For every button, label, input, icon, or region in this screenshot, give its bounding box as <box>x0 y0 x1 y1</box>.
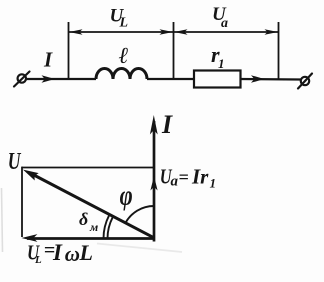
svg-text:φ: φ <box>120 179 133 211</box>
wire left <box>26 78 96 80</box>
scan smudge below UL label <box>97 244 182 253</box>
terminal right <box>301 77 309 85</box>
scan smudge left edge <box>2 188 3 252</box>
svg-text:L: L <box>119 16 129 31</box>
extension line left <box>68 22 70 79</box>
svg-text:L: L <box>79 240 93 265</box>
phasor U diagonal <box>30 173 154 238</box>
dim arrow UL left <box>69 29 83 34</box>
svg-text:L: L <box>34 254 42 266</box>
svg-text:Ir: Ir <box>191 164 209 188</box>
resistor r1 <box>194 71 241 88</box>
wire middle <box>147 78 194 80</box>
arrowhead Ua mid <box>150 176 157 191</box>
arc phi <box>125 206 154 223</box>
terminal left <box>18 74 26 82</box>
svg-text:a: a <box>171 174 179 190</box>
svg-text:I: I <box>52 240 63 265</box>
svg-text:U: U <box>8 147 22 174</box>
svg-text:1: 1 <box>210 176 217 191</box>
svg-text:a: a <box>221 16 228 31</box>
dim arrow Ua left <box>174 29 188 34</box>
phasor: thin left edge <box>21 167 23 237</box>
dim arrow Ua right <box>265 29 279 34</box>
svg-text:I: I <box>43 48 53 72</box>
svg-text:ℓ: ℓ <box>119 43 129 68</box>
svg-text:=: = <box>179 167 189 187</box>
extension line right <box>278 22 280 79</box>
phasor I axis <box>153 121 156 242</box>
svg-text:ω: ω <box>65 242 80 266</box>
wire right <box>241 78 301 81</box>
dimension line U_L / U_a <box>69 31 278 33</box>
inductor L <box>96 69 147 80</box>
svg-text:δ: δ <box>79 209 88 229</box>
svg-text:I: I <box>161 110 173 139</box>
arc delta (double) <box>104 216 110 239</box>
dim arrow UL right <box>160 29 174 34</box>
current arrow out <box>251 75 264 83</box>
svg-text:м: м <box>89 220 98 234</box>
svg-text:1: 1 <box>218 56 225 71</box>
arrowhead U <box>23 170 39 181</box>
current arrow I <box>42 75 55 83</box>
phasor U_L (bottom) <box>27 237 154 240</box>
phasor: thin top edge <box>22 167 154 169</box>
arrowhead I <box>150 115 158 135</box>
arrowhead U_L <box>21 234 37 242</box>
extension line middle <box>173 22 175 78</box>
